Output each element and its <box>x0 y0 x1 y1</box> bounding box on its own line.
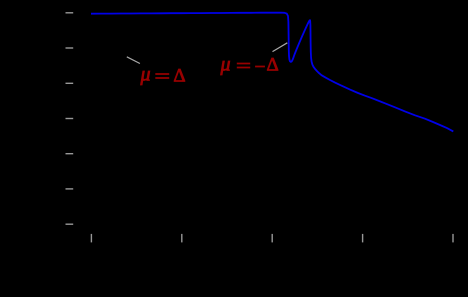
y-axis tick 2 <box>66 47 74 49</box>
y-axis tick 3 <box>66 82 74 84</box>
leader line for label mu=Delta <box>127 57 140 64</box>
y-axis tick 6 <box>66 188 74 190</box>
leader line for label mu=-Delta <box>273 43 288 52</box>
svg-text:μ=−Δ: μ=−Δ <box>220 54 279 78</box>
blue curve <box>91 13 453 132</box>
x-axis tick 2 <box>181 234 183 243</box>
svg-text:μ=Δ: μ=Δ <box>140 64 186 89</box>
y-axis tick 7 <box>66 223 74 225</box>
x-axis tick 5 <box>452 234 454 243</box>
y-axis tick 1 <box>66 12 74 14</box>
x-axis tick 1 <box>90 234 92 243</box>
y-axis tick 5 <box>66 153 74 155</box>
x-axis tick 4 <box>362 234 364 243</box>
y-axis tick 4 <box>66 118 74 120</box>
x-axis tick 3 <box>271 234 273 243</box>
